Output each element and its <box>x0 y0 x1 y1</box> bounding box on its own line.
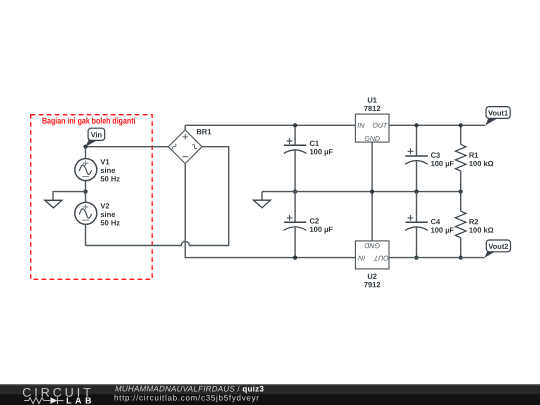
svg-text:100 µF: 100 µF <box>309 225 333 234</box>
label V1 value <box>100 157 120 183</box>
wire middle rail <box>262 191 461 193</box>
node R2 bottom <box>459 256 463 260</box>
label C3 value <box>431 151 455 168</box>
node C4 bottom <box>414 256 418 260</box>
wire U1 OUT to Vout1 <box>389 124 485 126</box>
wire junction to V2 top <box>85 192 87 203</box>
wire Vin to BR1 left <box>86 146 169 148</box>
svg-text:GND: GND <box>364 241 380 248</box>
bridge rectifier BR1 <box>168 130 202 164</box>
svg-text:50 Hz: 50 Hz <box>100 174 120 183</box>
wire Vin to V1 top <box>85 147 87 159</box>
svg-text:http://circuitlab.com/c35jb5fy: http://circuitlab.com/c35jb5fydveyr <box>114 393 260 402</box>
capacitor C2 <box>284 192 307 258</box>
voltage source V1 <box>75 159 97 181</box>
svg-text:7812: 7812 <box>364 104 381 113</box>
node GND rail crossing <box>370 190 374 194</box>
svg-text:OUT: OUT <box>373 254 389 261</box>
svg-text:Bagian ini gak boleh diganti: Bagian ini gak boleh diganti <box>42 116 136 126</box>
regulator U2 7912 (flipped) <box>355 241 389 269</box>
node R1 top <box>459 123 463 127</box>
flag Vout1 <box>485 107 510 126</box>
svg-text:IN: IN <box>357 123 365 130</box>
label V2 value <box>100 202 120 228</box>
svg-text:100 µF: 100 µF <box>431 226 455 235</box>
capacitor C4 <box>405 192 428 258</box>
node C2 bottom <box>293 256 297 260</box>
flag Vin <box>86 128 105 147</box>
label C2 value <box>309 217 333 234</box>
ground (left) <box>45 200 62 208</box>
node C3 top <box>414 123 418 127</box>
label U1 <box>364 96 381 113</box>
wire V2 to BR1 right AC (with hop) <box>86 147 229 246</box>
svg-text:Vout1: Vout1 <box>488 108 508 117</box>
node R1 bottom <box>459 190 463 194</box>
svg-text:100 kΩ: 100 kΩ <box>469 159 494 168</box>
wire U2 OUT to Vout2 <box>389 257 485 259</box>
voltage source V2 <box>75 202 97 224</box>
wire junction to ground left <box>53 192 86 201</box>
logo CircuitLab <box>22 386 95 405</box>
label U2 <box>364 272 381 289</box>
svg-text:100 kΩ: 100 kΩ <box>469 226 494 235</box>
node C1 top <box>293 123 297 127</box>
svg-text:7912: 7912 <box>364 280 381 289</box>
wire V1 bottom to mid junction <box>85 180 87 191</box>
svg-text:GND: GND <box>364 136 380 143</box>
svg-text:100 µF: 100 µF <box>309 147 333 156</box>
resistor R2 <box>455 192 466 258</box>
svg-text:50 Hz: 50 Hz <box>100 218 120 227</box>
svg-text:Vout2: Vout2 <box>488 242 508 251</box>
node Vin junction <box>83 145 87 149</box>
label R2 value <box>469 217 494 234</box>
label C1 value <box>309 139 333 156</box>
capacitor C3 <box>405 125 428 191</box>
footer credits <box>114 384 264 402</box>
label C4 value <box>431 217 455 234</box>
node C3 bottom <box>414 190 418 194</box>
svg-text:MUHAMMADNAUVALFIRDAUS / quiz3: MUHAMMADNAUVALFIRDAUS / quiz3 <box>115 384 264 393</box>
svg-text:OUT: OUT <box>372 123 388 130</box>
node C1 bottom <box>293 190 297 194</box>
wire BR1 bottom to bottom rail <box>185 164 355 258</box>
svg-text:100 µF: 100 µF <box>431 159 455 168</box>
flag Vout2 <box>485 240 511 258</box>
svg-text:Vin: Vin <box>91 130 103 139</box>
resistor R1 <box>455 125 466 191</box>
wire U1 GND down to U2 GND <box>371 142 373 241</box>
wire BR1 top stub <box>184 125 186 130</box>
regulator U1 7812 <box>355 114 389 143</box>
wire top rail BR1 to U1 IN <box>185 124 355 126</box>
svg-text:LAB: LAB <box>66 396 95 405</box>
footer bar <box>0 384 540 405</box>
capacitor C1 <box>284 125 307 191</box>
node V1/V2 junction <box>83 190 87 194</box>
svg-text:IN: IN <box>357 254 365 261</box>
svg-text:BR1: BR1 <box>196 127 211 136</box>
ground (right) <box>254 192 271 208</box>
label R1 value <box>469 151 494 168</box>
annotation red dashed box <box>31 115 153 280</box>
wire V2 bottom down <box>85 224 87 245</box>
